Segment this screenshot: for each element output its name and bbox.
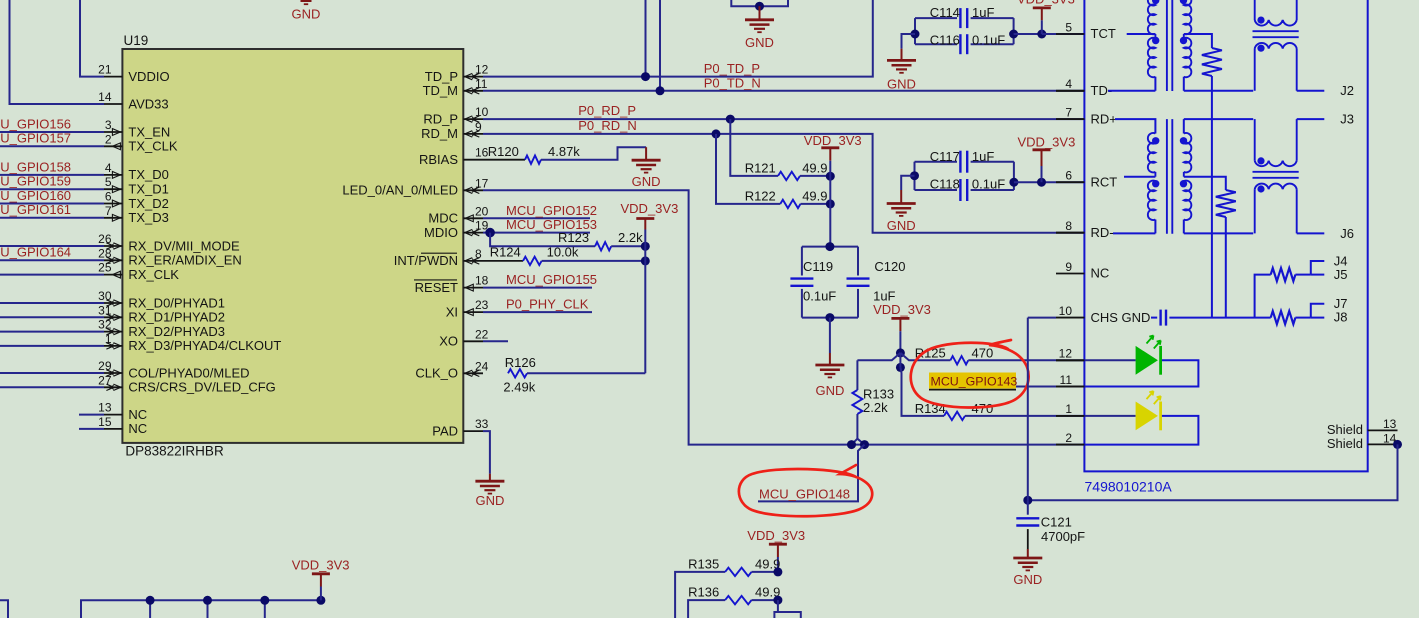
- svg-text:VDDIO: VDDIO: [128, 69, 169, 84]
- svg-text:2.49k: 2.49k: [503, 380, 535, 395]
- connector pin 12: [1056, 359, 1084, 361]
- wire RCT to primary centre tap: [1124, 176, 1155, 178]
- junction A on pin2 net: [847, 440, 856, 449]
- connector pin 14 Shield: [1368, 443, 1398, 445]
- svg-text:TX_D2: TX_D2: [128, 196, 168, 211]
- wire net row y=387.3: [0, 386, 104, 388]
- svg-text:MCU_GPIO155: MCU_GPIO155: [506, 272, 597, 287]
- junction right node pin 6: [1009, 178, 1018, 187]
- svg-text:Shield: Shield: [1327, 436, 1363, 451]
- svg-text:22: 22: [475, 327, 489, 341]
- wire net row y=274.6: [0, 274, 104, 276]
- svg-text:J2: J2: [1340, 83, 1354, 98]
- svg-text:C121: C121: [1041, 515, 1072, 530]
- wire net MCU_GPIO160 y=203.5: [0, 203, 104, 205]
- ground GND below C119/C120: [829, 318, 831, 353]
- capacitor C121 4700pF: [1027, 500, 1029, 515]
- svg-text:CRS/CRS_DV/LED_CFG: CRS/CRS_DV/LED_CFG: [128, 380, 275, 395]
- resistor R135 49.9: [675, 572, 725, 618]
- wire vertical to top at 660: [659, 0, 661, 91]
- svg-text:470: 470: [972, 346, 994, 361]
- svg-text:VDD_3V3: VDD_3V3: [804, 133, 862, 148]
- svg-text:RD_P: RD_P: [423, 111, 458, 126]
- ground GND RBIAS: [645, 147, 647, 160]
- pin stub at connector y=386.5: [1056, 386, 1084, 388]
- wire net row y=331.6: [0, 331, 104, 333]
- VDD rail vertical to CLK_O: [644, 230, 646, 374]
- junction lower: [896, 363, 905, 372]
- svg-text:GND: GND: [632, 174, 661, 189]
- svg-text:0.1uF: 0.1uF: [972, 177, 1005, 192]
- svg-text:R121: R121: [745, 160, 776, 175]
- fork to J7: [1311, 304, 1325, 318]
- resistor R133 2.2k: [856, 360, 858, 390]
- wire CHS GND row with series capacitor: [1151, 317, 1157, 319]
- svg-text:P0_RD_N: P0_RD_N: [578, 118, 637, 133]
- wire RCT node to connector pin 6: [1014, 181, 1085, 183]
- connector pin 5 TCT: [1056, 33, 1084, 35]
- wire net MCU_GPIO157 y=146.3: [0, 145, 104, 147]
- connector pin 1: [1056, 415, 1084, 417]
- svg-text:C118: C118: [930, 177, 960, 192]
- green LED arrows: [1147, 336, 1161, 349]
- svg-text:16: 16: [475, 146, 489, 160]
- wire C114/C116 right node: [1013, 18, 1015, 44]
- junction R135/VDD: [773, 567, 782, 576]
- capacitor C114 1uF: [915, 17, 957, 19]
- fork to J4: [1311, 261, 1325, 275]
- overline RESET: [414, 279, 457, 281]
- pin stub at connector y=444.6: [1056, 444, 1084, 446]
- svg-text:R136: R136: [688, 585, 719, 600]
- connector pin 10 CHS GND: [1056, 317, 1084, 319]
- wire RD+ to T2 primary top: [1115, 119, 1155, 133]
- resistor R124 10.0k: [483, 260, 523, 262]
- svg-text:U19: U19: [124, 33, 149, 48]
- capacitor stub at x=207.5: [207, 600, 209, 618]
- svg-text:XI: XI: [446, 304, 458, 319]
- resistor Bob-Smith to J7/J8: [1271, 311, 1296, 324]
- svg-text:R120: R120: [488, 144, 519, 159]
- NC pin 13 stub: [79, 414, 104, 416]
- capacitor C116 0.1uF: [915, 43, 957, 45]
- transformer T1 secondary winding lower: [1184, 38, 1192, 77]
- wire CMC2 to J6: [1297, 232, 1325, 234]
- svg-text:TX_EN: TX_EN: [128, 124, 170, 139]
- ground GND C117/C118: [901, 176, 914, 190]
- junction shield: [1393, 440, 1402, 449]
- junction B on pin2 net: [860, 440, 869, 449]
- svg-text:RBIAS: RBIAS: [419, 152, 458, 167]
- capacitor C117 1uF: [915, 161, 958, 163]
- capacitor stub at x=264.8: [264, 600, 266, 618]
- net label MCU_GPIO143 highlighted: [929, 373, 1016, 389]
- svg-text:J8: J8: [1334, 310, 1348, 325]
- yellow LED symbol: [1136, 402, 1158, 431]
- wire secondary bottom to choke: [1183, 77, 1185, 91]
- svg-text:RX_DV/MII_MODE: RX_DV/MII_MODE: [128, 238, 240, 253]
- capacitor stub at x=150.1: [149, 600, 151, 618]
- svg-text:21: 21: [98, 63, 112, 77]
- svg-text:4: 4: [1065, 77, 1072, 91]
- common-mode choke CMC2 upper winding: [1254, 119, 1256, 161]
- svg-text:7498010210A: 7498010210A: [1085, 479, 1173, 495]
- svg-text:VDD_3V3: VDD_3V3: [1018, 135, 1076, 150]
- svg-text:VDD_3V3: VDD_3V3: [292, 558, 350, 573]
- svg-text:0.1uF: 0.1uF: [803, 289, 836, 304]
- yellow LED cathode loop to pin 2: [1084, 416, 1198, 445]
- svg-text:18: 18: [475, 274, 489, 288]
- wire shield to C121: [1028, 444, 1398, 500]
- NC pin 15 stub: [79, 428, 104, 430]
- pin stub at connector y=415.9: [1056, 415, 1084, 417]
- svg-text:49.9: 49.9: [802, 160, 827, 175]
- svg-text:2: 2: [105, 132, 112, 146]
- svg-text:3: 3: [105, 118, 112, 132]
- svg-text:P0_TD_P: P0_TD_P: [704, 61, 760, 76]
- svg-text:R122: R122: [745, 189, 776, 204]
- svg-text:GND: GND: [475, 493, 504, 508]
- pin stub at connector y=119.1: [1056, 118, 1084, 120]
- transformer T1 primary winding lower: [1148, 38, 1156, 77]
- wire CHS GND pin 10 down: [1027, 318, 1029, 501]
- svg-text:GND: GND: [745, 35, 774, 50]
- capacitor C119 0.1uF: [802, 246, 858, 248]
- wire pin 11 net: [1016, 386, 1084, 388]
- connector pin 11: [1056, 386, 1084, 388]
- wire MDIO with label MCU_GPIO153: [483, 232, 590, 234]
- wire secondary centre tap to RT1: [1184, 34, 1212, 48]
- transformer T1 primary winding upper (cut at top): [1148, 0, 1156, 34]
- svg-text:XO: XO: [439, 334, 458, 349]
- wire bottom-left rail: [81, 600, 321, 618]
- svg-text:P0_PHY_CLK: P0_PHY_CLK: [506, 297, 589, 312]
- svg-text:20: 20: [475, 204, 489, 218]
- wire RT1 bottom to CHS GND rail: [1211, 76, 1213, 318]
- junction left node: [911, 30, 920, 39]
- wire RT2 bottom to CHS GND rail: [1225, 217, 1227, 318]
- wire net row y=303.0: [0, 302, 104, 304]
- svg-text:DP83822IRHBR: DP83822IRHBR: [125, 444, 224, 459]
- overline INT/PWDN: [421, 252, 457, 254]
- junction rail right: [316, 596, 325, 605]
- svg-text:4: 4: [105, 161, 112, 175]
- connector pin 4 TD-: [1056, 90, 1084, 92]
- svg-text:GND: GND: [887, 76, 916, 91]
- wire net MCU_GPIO158 y=174.9: [0, 174, 104, 176]
- connector pin 13 Shield: [1368, 429, 1398, 431]
- transformer T2 primary winding lower: [1148, 181, 1156, 220]
- power VDD_3V3 bottom-left: [320, 587, 322, 601]
- resistor R125 470: [900, 353, 950, 360]
- svg-text:MCU_GPIO164: MCU_GPIO164: [0, 245, 71, 260]
- junction R136: [773, 596, 782, 605]
- ground GND top-center: [759, 6, 761, 20]
- svg-text:15: 15: [98, 415, 112, 429]
- CMC1 lower winding: [1255, 43, 1297, 49]
- transformer T2 secondary winding upper: [1183, 119, 1185, 133]
- wire net row y=345.9: [0, 345, 104, 347]
- svg-text:1uF: 1uF: [972, 5, 994, 20]
- svg-text:R124: R124: [490, 244, 521, 259]
- svg-text:23: 23: [475, 298, 489, 312]
- wire net MCU_GPIO161 y=217.8: [0, 217, 104, 219]
- svg-text:R135: R135: [688, 557, 719, 572]
- junction P0_TD_P: [641, 72, 650, 81]
- junction P0_TD_N: [656, 86, 665, 95]
- IC U19 DP83822IRHBR body: [122, 49, 463, 443]
- svg-text:RD-: RD-: [1091, 225, 1114, 240]
- svg-text:49.9: 49.9: [802, 189, 827, 204]
- connector J 7498010210A outline: [1084, 0, 1367, 471]
- svg-text:RX_D3/PHYAD4/CLKOUT: RX_D3/PHYAD4/CLKOUT: [128, 338, 281, 353]
- svg-text:RX_D2/PHYAD3: RX_D2/PHYAD3: [128, 324, 225, 339]
- svg-text:TCT: TCT: [1091, 26, 1116, 41]
- transformer T2 secondary winding lower: [1184, 181, 1192, 220]
- svg-text:MCU_GPIO161: MCU_GPIO161: [0, 202, 71, 217]
- wire net MCU_GPIO159 y=189.2: [0, 188, 104, 190]
- svg-text:MCU_GPIO156: MCU_GPIO156: [0, 116, 71, 131]
- green LED anode wire handled; LED symbol: [1136, 346, 1158, 375]
- svg-text:13: 13: [1383, 417, 1397, 431]
- pin stub at connector y=90.8: [1056, 90, 1084, 92]
- svg-text:MCU_GPIO157: MCU_GPIO157: [0, 131, 71, 146]
- svg-text:MCU_GPIO152: MCU_GPIO152: [506, 203, 597, 218]
- wire net row y=373.0: [0, 372, 104, 374]
- wire bottom-left corner stub: [0, 600, 8, 618]
- polarity dots T2: [1152, 137, 1159, 144]
- svg-text:MCU_GPIO148: MCU_GPIO148: [759, 486, 850, 501]
- svg-text:8: 8: [1065, 219, 1072, 233]
- pin stub at connector y=317.6: [1056, 317, 1084, 319]
- transformer T2 core: [1166, 119, 1168, 234]
- svg-text:10.0k: 10.0k: [547, 244, 579, 259]
- wire MDC with label MCU_GPIO152: [483, 217, 590, 219]
- svg-text:TD_M: TD_M: [423, 83, 458, 98]
- wire CMC1 to J2: [1297, 90, 1325, 92]
- junction top-center: [755, 2, 764, 11]
- resistor RT1 termination: [1202, 48, 1222, 76]
- wire RESET with label MCU_GPIO155: [483, 287, 592, 289]
- svg-text:TD_P: TD_P: [425, 69, 458, 84]
- wire to J8: [1311, 317, 1325, 319]
- svg-text:11: 11: [1060, 373, 1073, 387]
- junction R122/C119 rail: [826, 199, 835, 208]
- svg-text:RX_D1/PHYAD2: RX_D1/PHYAD2: [128, 310, 225, 325]
- svg-text:NC: NC: [1091, 266, 1110, 281]
- wire LED_0/AN_0 pin 17 to connector pin 2: [483, 190, 1084, 444]
- ground GND C114/C116: [902, 34, 916, 49]
- svg-text:MCU_GPIO160: MCU_GPIO160: [0, 188, 71, 203]
- svg-text:COL/PHYAD0/MLED: COL/PHYAD0/MLED: [128, 365, 249, 380]
- svg-text:14: 14: [98, 90, 112, 104]
- svg-text:GND: GND: [1013, 572, 1042, 587]
- wire TCT to primary centre tap: [1127, 33, 1156, 35]
- CMC2 polarity dots: [1257, 157, 1264, 164]
- svg-text:TX_D3: TX_D3: [128, 210, 168, 225]
- connector pin 9 NC: [1056, 273, 1084, 275]
- svg-text:TX_CLK: TX_CLK: [128, 139, 177, 154]
- svg-text:RD_M: RD_M: [421, 126, 458, 141]
- svg-text:J3: J3: [1340, 112, 1354, 127]
- junction R123/VDD rail: [641, 242, 650, 251]
- red annotation circle around MCU_GPIO143: [911, 340, 1029, 408]
- junction MDIO: [485, 228, 495, 238]
- wire secondary bottom to choke CMC2: [1183, 220, 1185, 234]
- wire C114/C116 left node: [914, 18, 916, 44]
- resistor R123 2.2k pull-up: [490, 233, 595, 247]
- wire secondary top to choke CMC2: [1184, 118, 1253, 120]
- svg-text:RD+: RD+: [1091, 111, 1117, 126]
- wire R133 bottom to pin2 net: [852, 439, 858, 445]
- svg-text:2: 2: [1065, 431, 1072, 445]
- svg-text:C119: C119: [803, 259, 833, 274]
- svg-text:C116: C116: [930, 33, 960, 48]
- svg-text:7: 7: [105, 204, 112, 218]
- wire down to component below (cut): [777, 600, 779, 612]
- wire XO stub: [483, 340, 508, 342]
- wire P0_TD_P pin 12: [483, 0, 873, 77]
- svg-text:CHS GND: CHS GND: [1091, 310, 1151, 325]
- svg-text:4.87k: 4.87k: [548, 144, 580, 159]
- junction right node: [1009, 30, 1018, 39]
- svg-text:INT/PWDN: INT/PWDN: [394, 253, 458, 268]
- wire primary bottom to RD-: [1154, 220, 1156, 234]
- wire to J5: [1311, 274, 1325, 276]
- resistor R122 49.9: [716, 134, 780, 204]
- svg-text:4700pF: 4700pF: [1041, 529, 1085, 544]
- junction VDD at pin 6: [1037, 178, 1046, 187]
- svg-text:C117: C117: [930, 149, 960, 164]
- svg-text:9: 9: [1065, 260, 1072, 274]
- pin stub at connector y=360.3: [1056, 359, 1084, 361]
- wire AVD33 from left top: [10, 0, 105, 104]
- svg-text:1uF: 1uF: [972, 149, 994, 164]
- junction R124/VDD rail: [641, 256, 650, 265]
- component box below (cut): [774, 612, 800, 618]
- wire net MCU_GPIO156 y=132.0: [0, 131, 104, 133]
- svg-text:P0_TD_N: P0_TD_N: [704, 76, 761, 91]
- resistor R121 49.9: [730, 119, 778, 176]
- wire secondary centre tap to RT2: [1184, 177, 1226, 190]
- svg-text:J6: J6: [1340, 226, 1354, 241]
- svg-text:6: 6: [105, 190, 112, 204]
- connector pin 8 RD-: [1056, 232, 1084, 234]
- pin stub at connector y=232.7: [1056, 232, 1084, 234]
- svg-text:GND: GND: [815, 383, 844, 398]
- svg-text:TX_D1: TX_D1: [128, 182, 168, 197]
- transformer T2 primary winding upper: [1148, 133, 1156, 172]
- wire primary bottom to TD-: [1154, 77, 1156, 91]
- svg-text:12: 12: [1059, 347, 1073, 361]
- wire P0_RD_P pin 10 to connector pin 7: [483, 118, 1084, 120]
- svg-text:TX_D0: TX_D0: [128, 167, 168, 182]
- connector pin 2: [1056, 444, 1084, 446]
- wire pin5 stub: [1042, 33, 1056, 35]
- wire to R133 top: [857, 353, 900, 360]
- wire R134 to connector pin 1 / yellow LED: [965, 415, 1136, 417]
- svg-text:VDD_3V3: VDD_3V3: [747, 528, 805, 543]
- svg-text:R123: R123: [558, 230, 589, 245]
- svg-text:6: 6: [1065, 169, 1072, 183]
- wire P0_TD_N pin 11 to connector pin 4: [483, 90, 1084, 92]
- green LED cathode loop to pin 11: [1084, 360, 1198, 386]
- svg-text:13: 13: [98, 401, 112, 415]
- red annotation circle around MCU_GPIO148: [739, 465, 872, 516]
- svg-text:CLK_O: CLK_O: [415, 366, 458, 381]
- svg-text:MCU_GPIO143: MCU_GPIO143: [931, 374, 1018, 388]
- svg-text:NC: NC: [128, 407, 147, 422]
- svg-text:RCT: RCT: [1091, 174, 1118, 189]
- resistor R134 470: [900, 367, 944, 416]
- wire vertical to top at 645: [645, 0, 647, 77]
- svg-text:MCU_GPIO158: MCU_GPIO158: [0, 159, 71, 174]
- svg-text:VDD_3V3: VDD_3V3: [621, 201, 679, 216]
- svg-text:1: 1: [1065, 402, 1072, 416]
- ground GND PAD: [489, 474, 491, 482]
- wire C117/C118 right node: [1013, 162, 1015, 190]
- junction P0_RD_N / R122: [712, 129, 721, 138]
- wire R125 to connector pin 12 / green LED: [968, 359, 1135, 361]
- transformer T1 core: [1166, 0, 1168, 91]
- wire TCT node to connector pin 5: [1014, 33, 1085, 35]
- ground symbol top-left (cut): [301, 0, 312, 2]
- connector pin 7 RD+: [1056, 118, 1084, 120]
- junction VDD at pin 5: [1037, 30, 1046, 39]
- wire down to MCU_GPIO148 stub: [758, 445, 865, 502]
- svg-text:MCU_GPIO159: MCU_GPIO159: [0, 174, 71, 189]
- svg-text:P0_RD_P: P0_RD_P: [578, 103, 636, 118]
- junction C119 bottom: [825, 313, 834, 322]
- svg-text:NC: NC: [128, 421, 147, 436]
- wire net MCU_GPIO164 y=260.3: [0, 259, 104, 261]
- svg-text:PAD: PAD: [432, 423, 458, 438]
- svg-text:C120: C120: [874, 259, 905, 274]
- junction left node: [910, 171, 919, 180]
- wire XI with label P0_PHY_CLK: [483, 311, 592, 313]
- connector pin 6 RCT: [1056, 181, 1084, 183]
- junction C121 top: [1023, 496, 1032, 505]
- polarity dots T1: [1152, 0, 1159, 4]
- junction VDD/R125/R133: [896, 348, 905, 357]
- junction R121/VDD: [826, 172, 835, 181]
- common-mode choke CMC1 upper winding: [1254, 0, 1256, 20]
- wire net row y=246.0: [0, 245, 104, 247]
- junction C119 top: [825, 242, 834, 251]
- transformer T1 secondary winding upper (cut): [1184, 0, 1192, 34]
- svg-text:AVD33: AVD33: [128, 96, 168, 111]
- svg-text:J5: J5: [1334, 267, 1348, 282]
- CMC1 core: [1253, 30, 1299, 32]
- resistor Bob-Smith to J4/J5: [1255, 275, 1271, 318]
- svg-text:RX_CLK: RX_CLK: [128, 267, 179, 282]
- svg-text:MDC: MDC: [428, 211, 458, 226]
- CMC2 core: [1253, 171, 1299, 173]
- junction P0_RD_P / R121: [726, 115, 735, 124]
- svg-text:7: 7: [1065, 105, 1072, 119]
- svg-text:R126: R126: [505, 355, 536, 370]
- wire PAD to ground: [483, 431, 490, 474]
- svg-text:VDD_3V3: VDD_3V3: [1017, 0, 1075, 7]
- svg-text:33: 33: [475, 417, 489, 431]
- wire C117/C118 left node: [914, 162, 916, 190]
- svg-text:RX_D0/PHYAD1: RX_D0/PHYAD1: [128, 295, 225, 310]
- svg-text:GND: GND: [292, 7, 321, 22]
- wire VDDIO from top: [80, 0, 104, 77]
- svg-text:GND: GND: [887, 218, 916, 233]
- wire CMC2 to J3: [1297, 118, 1325, 120]
- svg-text:RESET: RESET: [415, 280, 458, 295]
